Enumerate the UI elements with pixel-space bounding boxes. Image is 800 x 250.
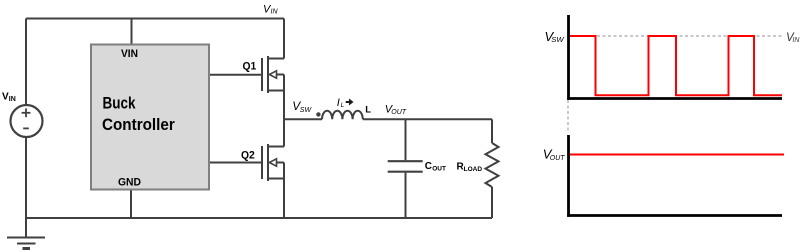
svg-text:I: I bbox=[337, 97, 340, 109]
svg-text:OUT: OUT bbox=[432, 166, 446, 173]
svg-text:Buck: Buck bbox=[103, 94, 136, 113]
svg-text:GND: GND bbox=[118, 176, 141, 188]
svg-text:Q1: Q1 bbox=[243, 60, 257, 72]
svg-text:C: C bbox=[425, 161, 432, 172]
svg-text:IN: IN bbox=[271, 9, 279, 16]
svg-text:L: L bbox=[341, 102, 345, 109]
svg-text:SW: SW bbox=[300, 107, 313, 114]
svg-text:LOAD: LOAD bbox=[464, 166, 483, 173]
svg-text:IN: IN bbox=[9, 96, 16, 103]
svg-text:OUT: OUT bbox=[550, 155, 566, 162]
svg-text:L: L bbox=[365, 105, 371, 116]
svg-text:SW: SW bbox=[551, 35, 564, 44]
svg-text:VIN: VIN bbox=[121, 48, 138, 60]
svg-text:Q2: Q2 bbox=[241, 149, 255, 161]
svg-text:IN: IN bbox=[792, 37, 800, 44]
svg-text:OUT: OUT bbox=[391, 109, 407, 116]
svg-text:Controller: Controller bbox=[102, 115, 175, 134]
